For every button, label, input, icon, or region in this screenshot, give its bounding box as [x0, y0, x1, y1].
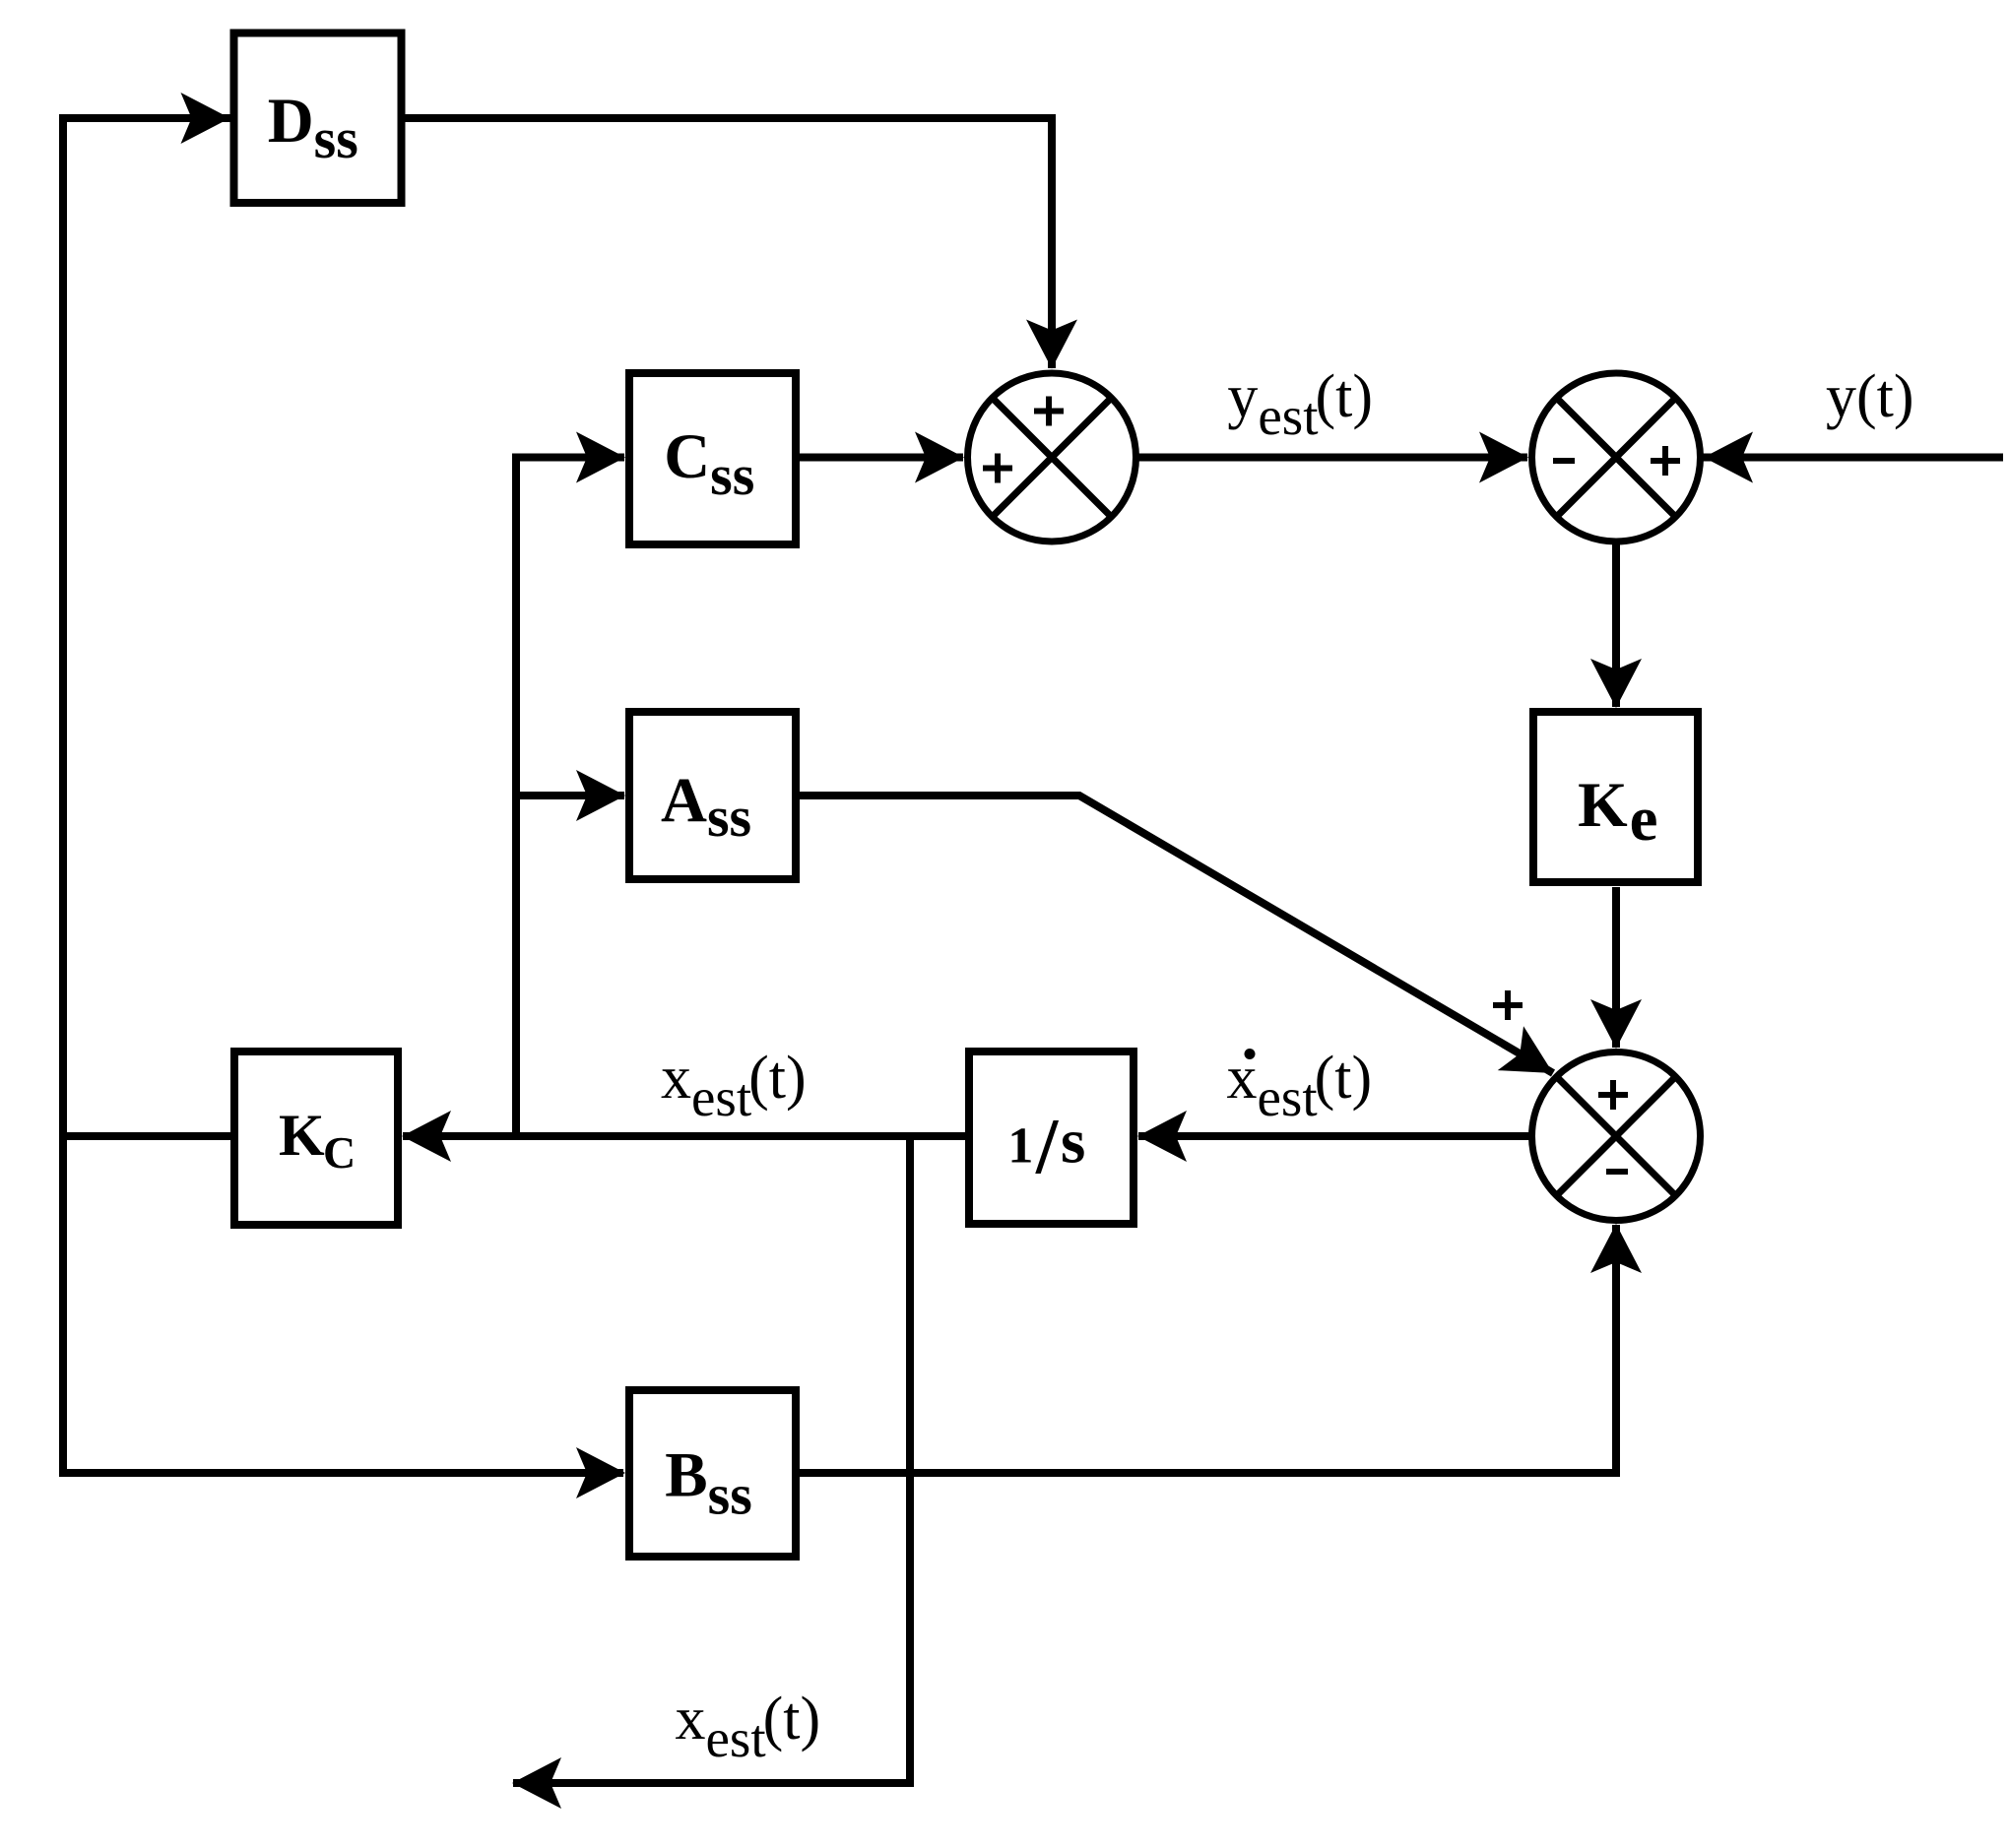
arrowhead into S2 right (y)	[1704, 432, 1753, 483]
S2 plus sign (right input)	[1651, 446, 1680, 476]
S3 minus sign (bottom input)	[1606, 1169, 1628, 1175]
wire: B_ss output right then up to S3 bottom	[798, 1225, 1616, 1473]
arrowhead into C_ss	[576, 432, 625, 483]
arrowhead into A_ss	[576, 770, 625, 821]
arrowhead into 1/s	[1137, 1111, 1187, 1162]
block D_ss	[234, 33, 402, 204]
wire: y(t) input from right edge to S2	[1703, 454, 2003, 462]
block B_ss	[629, 1390, 796, 1557]
arrowhead into S3 top (from K_e)	[1590, 999, 1642, 1049]
arrowhead into S1 top (from D_ss)	[1026, 320, 1077, 369]
wire: D_ss output to summing junction S1 top	[404, 118, 1052, 368]
wire: C_ss output to S1 left	[798, 454, 963, 462]
block A_ss	[629, 712, 796, 879]
arrowhead into S2 left (y_est)	[1479, 432, 1528, 483]
arrowhead into B_ss	[576, 1447, 625, 1498]
S3 plus sign (top input)	[1598, 1080, 1628, 1110]
svg-text:1: 1	[1007, 1118, 1033, 1175]
wire: A_ss output, horizontal then diagonal to S3	[798, 796, 1553, 1073]
summing junction S1 (y_est = C x + D u)	[968, 373, 1136, 542]
summing junction S2 (y - y_est)	[1532, 373, 1701, 542]
svg-text:s: s	[1061, 1107, 1085, 1178]
arrowhead of x_est(t) output at bottom	[512, 1757, 561, 1809]
block K_e	[1533, 712, 1698, 882]
wire: x_est branch to A_ss input (T junction)	[516, 792, 624, 799]
arrowhead into S3 upper-left (from A_ss)	[1498, 1026, 1566, 1095]
S3 plus sign (diagonal input)	[1493, 990, 1523, 1020]
arrowhead into S1 left (from C_ss)	[915, 432, 964, 483]
wire: S2 output down to K_e input	[1612, 544, 1620, 708]
S1 plus sign (top input)	[1034, 397, 1064, 426]
svg-text:/: /	[1035, 1104, 1060, 1190]
wire: S1 output y_est(t) to S2	[1138, 454, 1527, 462]
wire: x_est branch up to C_ss input	[516, 458, 624, 1137]
wire: S3 output xdot_est(t) to 1/s input	[1138, 1132, 1529, 1140]
wire: left feedback rail from K_C output to D_ss and B_ss inputs	[63, 118, 623, 1473]
svg-text:K: K	[279, 1103, 325, 1168]
arrowhead into S3 bottom (from B_ss)	[1590, 1224, 1642, 1273]
block K_C	[234, 1051, 398, 1225]
block C_ss	[629, 373, 796, 544]
S1 plus sign (left input)	[983, 454, 1012, 483]
svg-text:y(t): y(t)	[1826, 363, 1914, 430]
arrowhead into K_C	[402, 1111, 451, 1162]
S2 minus sign (left input)	[1553, 458, 1575, 464]
arrowhead into D_ss	[181, 93, 230, 144]
wire: K_e output down to S3 top	[1612, 887, 1620, 1048]
svg-text:C: C	[323, 1127, 356, 1178]
wire: 1/s output x_est(t) to K_C input	[403, 1132, 966, 1140]
wire: x_est branch down to bottom output arrow	[513, 1136, 910, 1783]
block 1/s	[969, 1051, 1134, 1224]
summing junction S3 (xdot_est)	[1532, 1052, 1701, 1221]
arrowhead into K_e	[1590, 659, 1642, 708]
wire: K_C output to left rail (T junction)	[63, 1132, 230, 1140]
